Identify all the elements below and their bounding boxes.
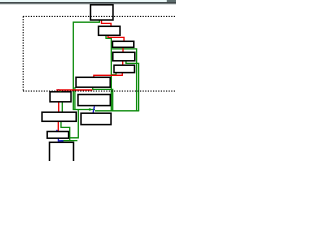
selection dotted left edge xyxy=(22,16,24,91)
block box4 xyxy=(113,52,135,61)
block box11 xyxy=(50,142,74,164)
selection dotted bottom edge xyxy=(23,90,176,92)
node green stub box7 top xyxy=(59,91,61,92)
block box8 xyxy=(42,112,76,121)
wire green box6 bottom loop xyxy=(93,87,113,111)
wire green bus drop to box9 xyxy=(69,110,79,138)
wire green bottom bus left xyxy=(73,109,95,111)
wire green bottom horizontal near box11 xyxy=(61,140,78,142)
wire blue box9 to box11 xyxy=(58,138,62,142)
wire green box5 bottom stub xyxy=(111,73,116,75)
node green junction dot xyxy=(89,108,91,110)
wire red box5 to box6 xyxy=(94,73,123,78)
block box5 xyxy=(114,65,135,72)
wire red box2 to box3 xyxy=(108,35,124,41)
wire green box6 left drop xyxy=(74,87,76,109)
wire green box4 bottom to right outer xyxy=(126,61,139,111)
toolbar light band xyxy=(0,0,176,2)
block box10 xyxy=(81,113,111,124)
selection dotted top edge xyxy=(23,15,176,17)
wire red box4 to box5 xyxy=(122,61,124,65)
wire red long box7 top xyxy=(56,89,92,91)
block box2 xyxy=(99,26,121,35)
wire blue stub box7 top xyxy=(58,89,60,90)
wire green loop box1-left xyxy=(73,20,99,110)
toolbar corner gray tab xyxy=(167,0,176,2)
block box9 xyxy=(47,132,68,139)
wire green box7 to box8 xyxy=(61,102,63,112)
wire blue dot box9 top xyxy=(56,130,58,132)
block box6 xyxy=(76,77,110,87)
wire green box2 bottom under box3 to right xyxy=(111,49,136,111)
toolbar dark edge line xyxy=(0,2,176,4)
wire green box2 bottom long xyxy=(106,35,111,111)
block box6b xyxy=(78,95,110,106)
wire red box8 to box9 xyxy=(57,121,59,131)
wire red box1 to box2 xyxy=(102,20,112,26)
block box3 xyxy=(113,41,134,47)
block box1 xyxy=(91,5,114,20)
wire red box3 to box4 xyxy=(122,47,124,52)
block box7 xyxy=(50,92,71,102)
wire red box7 to box8 xyxy=(58,102,60,112)
wire blue diagonal box6b to box10 xyxy=(93,106,94,113)
toolbar edge fade xyxy=(0,3,176,6)
wire green box8 bypass xyxy=(61,121,70,140)
wire green bottom bus right xyxy=(95,110,139,112)
